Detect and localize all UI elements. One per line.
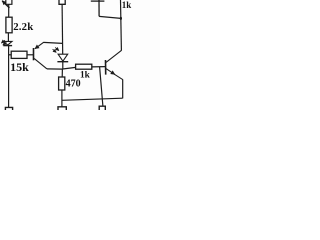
wire branch down to bottom terminal — [100, 67, 103, 106]
node C junction dot — [120, 17, 122, 20]
bottom rail wire — [62, 98, 123, 100]
transistor Q1 (PNP) — [34, 42, 48, 69]
terminal box bottom-middle (cut off) — [58, 107, 66, 110]
wire node B to R 470 — [61, 69, 63, 77]
adjustable resistor RP (cut off at top) — [2, 0, 12, 8]
terminal box bottom-left (cut off) — [5, 107, 12, 110]
wire to node C junction — [99, 16, 121, 18]
wire R 470 to bottom rail — [61, 90, 63, 107]
wire left rail to 15k — [9, 54, 12, 56]
wire top resistor through node A to D2 — [61, 4, 64, 54]
resistor 15k body — [11, 51, 27, 58]
svg-text:1k: 1k — [80, 70, 91, 80]
terminal box bottom-right (cut off) — [99, 106, 105, 110]
wire Q1 collector to node B — [47, 68, 63, 70]
LED D1 — [1, 40, 12, 45]
resistor 2.2k body — [6, 17, 12, 33]
resistor top-middle (cut off at top) — [59, 0, 65, 4]
wire R 1k to Q2 base — [92, 66, 105, 68]
resistor 1k body — [76, 64, 92, 69]
wire RP to R 2.2k — [8, 4, 10, 17]
wire Q2 emitter down to rail corner — [122, 79, 124, 98]
wire Q1 emitter to node A — [43, 42, 62, 43]
photodiode D2 — [53, 47, 69, 61]
wire 15k to Q1 base — [27, 54, 33, 56]
svg-text:15k: 15k — [10, 60, 29, 74]
svg-text:1k: 1k — [122, 0, 132, 10]
wire node B to R 1k — [63, 67, 76, 69]
svg-text:2.2k: 2.2k — [13, 21, 33, 33]
wire top-right horizontal — [91, 0, 105, 2]
wire vertical drop from top — [98, 0, 100, 16]
wire LED down left rail — [8, 46, 10, 108]
wire Q2 collector up right rail — [120, 0, 123, 51]
resistor 470 body — [59, 77, 65, 90]
svg-text:470: 470 — [66, 78, 81, 89]
wire D2 cathode to node B — [62, 62, 64, 70]
transistor Q2 (NPN) — [106, 50, 123, 79]
wire R 2.2k to LED — [7, 33, 9, 42]
